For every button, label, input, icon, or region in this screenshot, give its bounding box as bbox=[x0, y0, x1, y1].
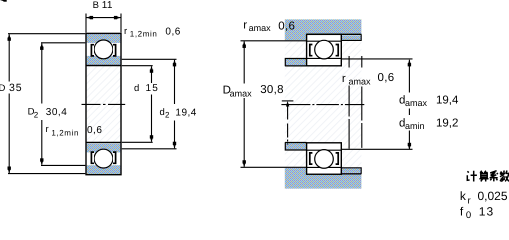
svg-text:r: r bbox=[468, 195, 471, 206]
shaft end face right bbox=[361, 56, 363, 148]
svg-text:2: 2 bbox=[165, 111, 170, 120]
seal left (top half) bbox=[91, 45, 94, 56]
dim D extension lines bbox=[8, 34, 85, 174]
inner ring section (bottom half) bbox=[87, 144, 121, 153]
svg-text:0,6: 0,6 bbox=[378, 72, 395, 84]
dim d2 line bbox=[174, 60, 176, 149]
svg-text:d: d bbox=[160, 107, 165, 118]
svg-text:r: r bbox=[124, 26, 127, 37]
section zone hatch bbox=[285, 19, 362, 188]
dim D2 extension lines bbox=[41, 43, 85, 166]
dim B line bbox=[86, 17, 121, 19]
svg-text:19,4: 19,4 bbox=[175, 108, 196, 119]
D2 arrows bbox=[40, 43, 43, 50]
svg-text:k: k bbox=[460, 189, 467, 203]
svg-text:amin: amin bbox=[405, 121, 425, 131]
d_a extension lines bbox=[341, 59, 412, 149]
svg-text:r: r bbox=[243, 19, 247, 31]
svg-text:amax: amax bbox=[249, 23, 272, 33]
centre line bbox=[82, 103, 126, 105]
bearing outline bbox=[86, 33, 121, 174]
centre line bbox=[281, 104, 364, 106]
svg-text:amax: amax bbox=[230, 89, 253, 99]
svg-text:13: 13 bbox=[479, 205, 495, 219]
dim d line bbox=[151, 66, 153, 142]
svg-text:35: 35 bbox=[9, 82, 22, 94]
svg-text:D: D bbox=[0, 83, 6, 94]
svg-text:0,6: 0,6 bbox=[278, 20, 295, 32]
dim D_amax line bbox=[243, 41, 245, 167]
B arrows bbox=[86, 16, 93, 19]
shaft shoulder face right bbox=[348, 56, 350, 149]
arrow prototype: tip at origin pointing left bbox=[0, 0, 7, 2]
bearing top half bbox=[307, 34, 342, 65]
D arrows bbox=[8, 34, 11, 41]
dim d2 extension lines bbox=[122, 59, 177, 149]
bearing bore lines bbox=[86, 66, 121, 143]
housing shoulder top-right bbox=[342, 35, 361, 40]
D_amax arrows bbox=[243, 41, 246, 48]
svg-text:1,2min: 1,2min bbox=[130, 30, 158, 39]
char 计 bbox=[467, 171, 477, 182]
housing top bbox=[285, 19, 362, 40]
svg-text:amax: amax bbox=[349, 77, 372, 87]
seal right (bottom half) bbox=[113, 152, 116, 163]
housing shoulder edge bottom (D_amax ext) bbox=[241, 166, 307, 168]
housing bottom bbox=[285, 168, 362, 189]
shaft shoulder top-left bbox=[286, 59, 307, 66]
housing bore line bottom bbox=[307, 173, 362, 175]
char 数 bbox=[500, 171, 509, 182]
svg-text:d: d bbox=[134, 83, 139, 94]
ball (bottom half) bbox=[94, 149, 113, 168]
housing bore line top bbox=[307, 33, 362, 35]
svg-text:30,4: 30,4 bbox=[46, 107, 67, 118]
housing shoulder edge top (D_amax ext) bbox=[241, 40, 307, 42]
svg-text:19,2: 19,2 bbox=[436, 118, 458, 130]
svg-text:0: 0 bbox=[466, 210, 471, 219]
outer ring section (bottom half) bbox=[87, 165, 121, 174]
svg-text:30,8: 30,8 bbox=[260, 84, 284, 96]
svg-text:1,2min: 1,2min bbox=[51, 128, 79, 137]
char 系 bbox=[490, 171, 498, 182]
d_a arrows bbox=[408, 60, 411, 67]
svg-text:2: 2 bbox=[34, 110, 39, 119]
seal right (top half) bbox=[113, 45, 116, 56]
svg-text:B: B bbox=[93, 0, 99, 11]
dim d_a line bbox=[408, 60, 410, 150]
dim D line bbox=[8, 34, 10, 173]
dim d extension lines bbox=[122, 66, 153, 143]
svg-text:amax: amax bbox=[405, 98, 428, 108]
svg-text:r: r bbox=[46, 124, 49, 135]
char 算 bbox=[479, 171, 488, 182]
shaft shoulder bottom-left bbox=[286, 143, 307, 150]
svg-text:r: r bbox=[342, 73, 346, 85]
bearing bottom half bbox=[307, 143, 342, 174]
bore hatch area bbox=[86, 66, 121, 143]
seal left (bottom half) bbox=[91, 152, 94, 163]
inner ring section (top half) bbox=[87, 56, 121, 65]
dim B extension lines bbox=[86, 14, 121, 33]
housing shoulder bottom-right bbox=[342, 168, 361, 173]
d arrows bbox=[150, 66, 153, 73]
label 计算系数 (drawn strokes) bbox=[467, 171, 509, 182]
ball (top half) bbox=[94, 40, 113, 59]
svg-text:19,4: 19,4 bbox=[436, 95, 459, 107]
dim D2 line bbox=[41, 43, 43, 165]
d2 arrows bbox=[173, 60, 176, 67]
outer ring section (top half) bbox=[87, 34, 121, 43]
datum tick with arrow bbox=[282, 100, 294, 102]
svg-text:0,6: 0,6 bbox=[165, 26, 180, 37]
svg-text:11: 11 bbox=[102, 0, 113, 11]
svg-text:0,6: 0,6 bbox=[87, 125, 102, 136]
svg-text:0,025: 0,025 bbox=[478, 189, 508, 203]
svg-text:15: 15 bbox=[146, 83, 160, 94]
